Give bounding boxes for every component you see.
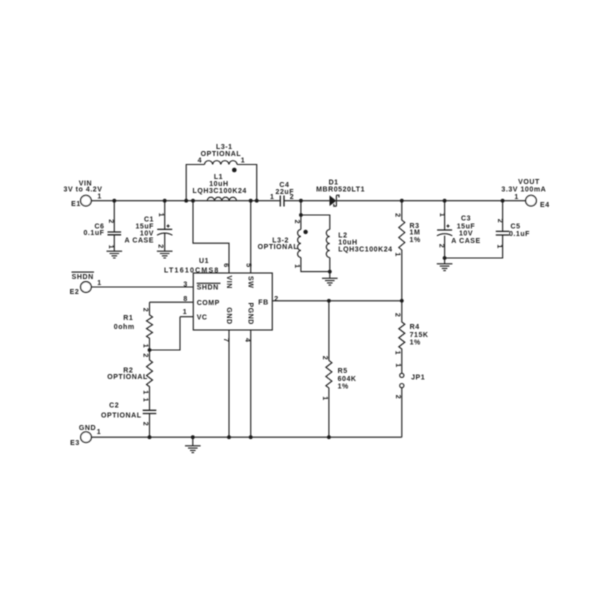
svg-text:GND: GND bbox=[79, 425, 96, 432]
svg-text:4: 4 bbox=[243, 338, 250, 342]
svg-text:2: 2 bbox=[107, 219, 114, 223]
svg-text:VOUT: VOUT bbox=[518, 179, 540, 186]
svg-text:3V to 4.2V: 3V to 4.2V bbox=[64, 187, 103, 194]
svg-text:1: 1 bbox=[270, 194, 274, 201]
svg-text:L1: L1 bbox=[214, 174, 223, 181]
svg-text:15uF: 15uF bbox=[135, 223, 154, 230]
svg-text:1: 1 bbox=[157, 213, 164, 217]
svg-text:OPTIONAL: OPTIONAL bbox=[201, 151, 242, 158]
svg-text:10V: 10V bbox=[459, 231, 473, 238]
svg-text:JP1: JP1 bbox=[411, 375, 425, 382]
svg-text:OPTIONAL: OPTIONAL bbox=[258, 244, 299, 251]
svg-text:715K: 715K bbox=[410, 332, 429, 339]
svg-text:1%: 1% bbox=[410, 237, 421, 244]
svg-text:10uH: 10uH bbox=[209, 181, 228, 188]
svg-text:604K: 604K bbox=[338, 376, 357, 383]
svg-text:2: 2 bbox=[293, 220, 300, 224]
svg-text:1: 1 bbox=[97, 194, 101, 201]
svg-text:E2: E2 bbox=[70, 289, 80, 296]
svg-text:E3: E3 bbox=[70, 440, 80, 447]
svg-text:1: 1 bbox=[321, 396, 328, 400]
svg-text:1%: 1% bbox=[338, 384, 349, 391]
svg-text:L2: L2 bbox=[338, 233, 347, 240]
svg-text:3.3V 100mA: 3.3V 100mA bbox=[501, 186, 546, 193]
svg-text:2: 2 bbox=[142, 353, 149, 357]
svg-text:0ohm: 0ohm bbox=[114, 324, 135, 331]
svg-text:E4: E4 bbox=[540, 202, 550, 209]
svg-text:2: 2 bbox=[393, 213, 400, 217]
svg-text:SHDN: SHDN bbox=[72, 274, 94, 281]
svg-text:1: 1 bbox=[107, 245, 114, 249]
svg-text:1: 1 bbox=[97, 280, 101, 287]
svg-text:2: 2 bbox=[496, 219, 503, 223]
svg-text:PGND: PGND bbox=[247, 302, 254, 324]
svg-text:6: 6 bbox=[222, 263, 229, 267]
svg-text:0.1uF: 0.1uF bbox=[509, 231, 530, 238]
svg-text:0.1uF: 0.1uF bbox=[83, 230, 104, 237]
svg-text:10uH: 10uH bbox=[338, 240, 357, 247]
svg-text:R5: R5 bbox=[338, 368, 348, 375]
svg-text:FB: FB bbox=[258, 300, 268, 307]
svg-text:1: 1 bbox=[142, 390, 149, 394]
svg-text:2: 2 bbox=[274, 296, 278, 303]
svg-text:R4: R4 bbox=[410, 324, 420, 331]
svg-text:2: 2 bbox=[394, 395, 401, 399]
svg-text:LT1610CMS8: LT1610CMS8 bbox=[164, 267, 220, 274]
svg-text:1: 1 bbox=[496, 244, 503, 248]
svg-text:A CASE: A CASE bbox=[125, 237, 155, 244]
svg-text:VC: VC bbox=[197, 315, 208, 322]
svg-text:VIN: VIN bbox=[225, 276, 232, 289]
svg-text:1: 1 bbox=[142, 344, 149, 348]
svg-text:2: 2 bbox=[142, 422, 149, 426]
svg-text:2: 2 bbox=[290, 194, 294, 201]
svg-text:1: 1 bbox=[142, 398, 149, 402]
svg-text:7: 7 bbox=[222, 338, 229, 342]
svg-text:R1: R1 bbox=[123, 315, 133, 322]
svg-text:1: 1 bbox=[293, 264, 300, 268]
svg-text:2: 2 bbox=[156, 244, 163, 248]
svg-text:C1: C1 bbox=[144, 216, 154, 223]
svg-text:2: 2 bbox=[321, 356, 328, 360]
svg-text:C4: C4 bbox=[279, 182, 289, 189]
svg-text:LQH3C100K24: LQH3C100K24 bbox=[193, 188, 247, 195]
svg-text:A CASE: A CASE bbox=[451, 238, 481, 245]
svg-text:C3: C3 bbox=[461, 216, 471, 223]
svg-text:MBR0520LT1: MBR0520LT1 bbox=[316, 186, 365, 193]
svg-text:SHDN: SHDN bbox=[197, 285, 219, 292]
svg-text:C5: C5 bbox=[510, 224, 520, 231]
svg-text:2: 2 bbox=[438, 244, 445, 248]
svg-text:GND: GND bbox=[225, 307, 232, 324]
svg-text:8: 8 bbox=[183, 296, 187, 303]
svg-text:1%: 1% bbox=[410, 340, 421, 347]
svg-text:1: 1 bbox=[514, 194, 518, 201]
svg-text:3: 3 bbox=[183, 281, 187, 288]
svg-text:LQH3C100K24: LQH3C100K24 bbox=[338, 247, 392, 254]
svg-text:C2: C2 bbox=[109, 403, 119, 410]
svg-text:5: 5 bbox=[245, 263, 252, 267]
svg-text:4: 4 bbox=[198, 158, 202, 165]
svg-text:OPTIONAL: OPTIONAL bbox=[107, 374, 148, 381]
svg-text:OPTIONAL: OPTIONAL bbox=[101, 413, 142, 420]
svg-text:1: 1 bbox=[394, 363, 401, 367]
svg-text:U1: U1 bbox=[199, 258, 209, 265]
svg-text:1M: 1M bbox=[410, 230, 421, 237]
svg-text:2: 2 bbox=[393, 313, 400, 317]
svg-text:2: 2 bbox=[142, 308, 149, 312]
svg-text:1: 1 bbox=[393, 351, 400, 355]
svg-text:E1: E1 bbox=[71, 201, 81, 208]
svg-text:1: 1 bbox=[393, 252, 400, 256]
svg-text:1: 1 bbox=[241, 158, 245, 165]
svg-text:1: 1 bbox=[97, 429, 101, 436]
svg-text:SW: SW bbox=[247, 276, 254, 288]
svg-text:1: 1 bbox=[438, 213, 445, 217]
svg-text:1: 1 bbox=[183, 309, 187, 316]
svg-text:COMP: COMP bbox=[197, 300, 220, 307]
